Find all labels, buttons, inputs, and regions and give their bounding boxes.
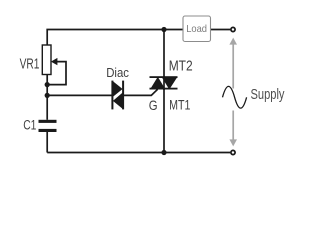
svg-text:MT2: MT2: [169, 59, 193, 75]
svg-text:VR1: VR1: [20, 56, 40, 72]
svg-text:Diac: Diac: [106, 65, 129, 80]
svg-text:C1: C1: [23, 118, 36, 133]
svg-text:Supply: Supply: [251, 87, 286, 103]
svg-text:Load: Load: [186, 23, 207, 35]
svg-text:G: G: [149, 97, 158, 113]
svg-text:MT1: MT1: [169, 97, 190, 113]
